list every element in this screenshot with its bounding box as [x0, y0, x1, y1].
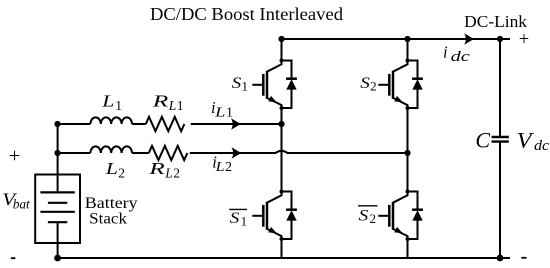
node: S2bar collector — [406, 190, 410, 194]
label: minus left — [11, 257, 16, 259]
svg-text:S: S — [230, 210, 240, 227]
node: capacitor top junction — [497, 36, 503, 42]
wire left vertical battery to phase lines — [57, 124, 59, 175]
svg-text:V: V — [517, 127, 535, 152]
svg-text:dc: dc — [534, 138, 550, 154]
svg-text:bat: bat — [13, 198, 31, 213]
node: phase2 tap at left column — [54, 150, 60, 156]
svg-text:C: C — [475, 127, 490, 152]
node: S2 emitter — [406, 106, 410, 110]
diode of S2bar — [408, 192, 423, 240]
transistor S1bar (IGBT) — [252, 192, 281, 240]
svg-text:S: S — [360, 75, 370, 92]
node: S1 emitter — [280, 106, 284, 110]
wire leg1 bottom: S1bar emitter to bottom rail — [281, 239, 283, 258]
svg-text:1: 1 — [241, 213, 248, 228]
node: S1 collector — [280, 59, 284, 63]
svg-text:DC/DC Boost Interleaved: DC/DC Boost Interleaved — [150, 4, 343, 24]
svg-text:i: i — [443, 43, 448, 62]
resistor RL2 — [149, 146, 188, 160]
svg-text:R: R — [151, 91, 169, 110]
current arrow iL2 — [232, 147, 242, 159]
node: phase1 tap at left column — [54, 121, 60, 127]
svg-text:1: 1 — [115, 98, 122, 113]
svg-text:L: L — [215, 160, 225, 175]
current arrow idc on top rail — [464, 33, 474, 45]
svg-text:+: + — [9, 145, 21, 167]
svg-text:L: L — [164, 166, 173, 181]
svg-text:2: 2 — [173, 166, 180, 181]
capacitor C plates — [492, 137, 509, 142]
wire battery bottom to rail — [57, 243, 59, 258]
svg-text:S: S — [359, 207, 369, 224]
diode of S1bar — [282, 192, 297, 240]
svg-text:L: L — [214, 106, 226, 121]
inductor L1 — [90, 117, 132, 124]
svg-text:2: 2 — [370, 211, 377, 226]
wire leg1 top: rail to S1 collector — [281, 39, 283, 61]
svg-text:L: L — [101, 91, 114, 110]
node: S2bar emitter — [406, 237, 410, 241]
wire leg2 top: rail to S2 collector — [407, 39, 409, 61]
svg-text:DC-Link: DC-Link — [464, 12, 528, 31]
svg-text:L: L — [105, 159, 118, 178]
wire leg2 bottom: S2bar emitter to bottom rail — [407, 239, 409, 258]
wire leg2 middle: S2 emitter to S2bar collector — [407, 108, 409, 192]
transistor S2bar (IGBT) — [378, 192, 407, 240]
svg-text:1: 1 — [177, 98, 184, 113]
inductor L2 — [90, 146, 132, 153]
node: S1bar emitter — [280, 237, 284, 241]
node: S1bar collector — [280, 190, 284, 194]
svg-text:S: S — [232, 75, 242, 92]
label: minus bottom right — [521, 257, 526, 259]
current arrow iL1 — [231, 118, 241, 130]
svg-text:2: 2 — [370, 78, 377, 93]
svg-text:1: 1 — [242, 78, 249, 93]
diode of S1 — [282, 61, 297, 109]
node: battery negative to rail — [54, 255, 61, 262]
svg-text:+: + — [519, 30, 529, 50]
wire capacitor bottom branch — [499, 143, 501, 259]
svg-text:2: 2 — [118, 166, 125, 181]
battery V_bat cells — [57, 175, 59, 244]
wire capacitor top branch — [499, 39, 501, 136]
svg-text:Battery: Battery — [85, 195, 138, 212]
svg-text:dc: dc — [451, 49, 471, 65]
node: leg2 midpoint junction — [404, 150, 410, 156]
node: leg2 top rail junction — [404, 36, 410, 42]
transistor S2 (IGBT) — [378, 61, 407, 109]
wire leg1 middle: S1 emitter to S1bar collector — [281, 108, 283, 192]
svg-text:2: 2 — [225, 160, 232, 175]
diode of S2 — [408, 61, 423, 109]
wire top rail (DC-link +) — [282, 38, 511, 40]
node: S2 collector — [406, 59, 410, 63]
node: leg1 top rail junction — [278, 36, 284, 42]
wire bottom rail (DC-link -) — [58, 257, 510, 259]
node: capacitor bottom junction — [497, 255, 504, 262]
wire phase 1 line segments — [58, 123, 282, 125]
svg-text:1: 1 — [226, 106, 233, 121]
svg-text:L: L — [168, 98, 177, 113]
transistor S1 (IGBT) — [252, 61, 281, 109]
node: leg1 midpoint junction — [278, 121, 284, 127]
resistor RL1 — [146, 117, 185, 131]
svg-text:R: R — [148, 159, 166, 178]
battery stack box — [35, 175, 80, 244]
wire phase 2 line segments with hop over leg1 — [58, 151, 408, 153]
svg-text:Stack: Stack — [89, 211, 127, 228]
